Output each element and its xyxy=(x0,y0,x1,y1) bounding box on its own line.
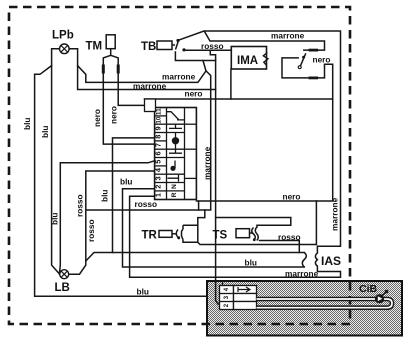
svg-text:LB: LB xyxy=(55,282,70,294)
svg-text:IMA: IMA xyxy=(237,55,258,67)
svg-text:TB: TB xyxy=(141,41,156,53)
svg-text:blu: blu xyxy=(137,287,149,297)
svg-text:TS: TS xyxy=(213,230,228,242)
svg-text:blu: blu xyxy=(100,190,110,202)
svg-text:7: 7 xyxy=(154,143,163,147)
svg-text:5: 5 xyxy=(154,160,163,164)
svg-text:marrone: marrone xyxy=(285,268,319,278)
svg-text:rosso: rosso xyxy=(75,194,85,217)
svg-text:marrone: marrone xyxy=(133,81,167,91)
svg-text:nero: nero xyxy=(109,106,119,124)
svg-text:R: R xyxy=(171,192,178,197)
svg-text:TM: TM xyxy=(86,41,103,53)
svg-text:rosso: rosso xyxy=(86,219,96,242)
svg-text:blu: blu xyxy=(22,118,32,130)
svg-text:TR: TR xyxy=(142,230,158,242)
svg-text:rosso: rosso xyxy=(201,41,224,51)
svg-text:nero: nero xyxy=(313,55,331,65)
svg-text:nero: nero xyxy=(92,109,102,127)
svg-text:marrone: marrone xyxy=(330,197,340,231)
svg-text:2: 2 xyxy=(154,185,163,189)
svg-text:N: N xyxy=(171,184,178,189)
svg-text:nero: nero xyxy=(185,89,203,99)
svg-text:blu: blu xyxy=(50,213,60,225)
svg-text:marrone: marrone xyxy=(271,31,305,41)
svg-text:blu: blu xyxy=(245,258,257,268)
svg-text:11: 11 xyxy=(156,108,163,115)
svg-text:8: 8 xyxy=(154,135,163,139)
svg-text:blu: blu xyxy=(120,177,132,187)
svg-text:9: 9 xyxy=(154,126,163,130)
svg-text:LPb: LPb xyxy=(52,30,74,42)
svg-text:10: 10 xyxy=(156,116,163,124)
svg-text:rosso: rosso xyxy=(278,232,301,242)
svg-text:3: 3 xyxy=(154,176,163,180)
svg-text:CiB: CiB xyxy=(359,283,378,295)
svg-text:IAS: IAS xyxy=(321,254,341,268)
svg-text:marrone: marrone xyxy=(202,146,212,180)
svg-text:6: 6 xyxy=(154,151,163,155)
svg-text:nero: nero xyxy=(283,192,301,202)
svg-text:blu: blu xyxy=(40,126,50,138)
svg-text:1: 1 xyxy=(154,193,163,197)
svg-text:marrone: marrone xyxy=(162,72,196,82)
svg-text:rosso: rosso xyxy=(135,199,158,209)
